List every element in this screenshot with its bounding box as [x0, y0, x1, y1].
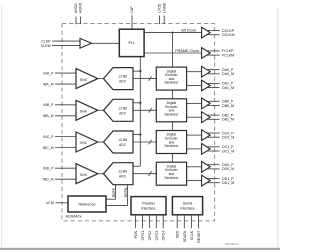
svg-text:REFP: REFP	[112, 187, 116, 197]
svg-text:AVDD: AVDD	[74, 3, 78, 13]
pin CFG4	[162, 215, 164, 228]
LVDS buffer DC1	[202, 144, 211, 155]
wire CLKM	[52, 45, 80, 47]
wire ADCB clock stub	[133, 102, 140, 104]
pin SDATA	[183, 215, 185, 228]
svg-text:DB1_M: DB1_M	[222, 118, 234, 122]
svg-text:CFG2: CFG2	[148, 231, 152, 241]
ADC D	[104, 163, 134, 185]
svg-text:DD1_M: DD1_M	[222, 181, 234, 185]
svg-text:ADS642x: ADS642x	[66, 214, 82, 218]
pins DC0_P DC0_M	[206, 132, 219, 134]
wire INC_P	[55, 136, 76, 138]
svg-text:IND_M: IND_M	[43, 178, 54, 182]
LVDS buffer DC0	[202, 130, 211, 141]
wire SHAC to ADCC	[98, 141, 104, 143]
svg-text:INC_P: INC_P	[43, 135, 54, 139]
svg-text:SHA: SHA	[80, 110, 88, 114]
svg-text:CLKM: CLKM	[41, 44, 51, 48]
pin SEN	[176, 215, 178, 228]
svg-text:Interface: Interface	[141, 206, 155, 210]
wire CAP to PLL	[131, 15, 133, 29]
wire SHAA to ADCA	[98, 78, 104, 80]
svg-text:12-Bit: 12-Bit	[118, 138, 127, 142]
wire SHAD to ADCD	[98, 173, 104, 175]
SHA B	[76, 100, 98, 120]
wire INB_M	[55, 115, 76, 117]
svg-text:IND_P: IND_P	[43, 167, 54, 171]
net REFM	[127, 185, 129, 206]
svg-text:CAP: CAP	[130, 6, 134, 14]
svg-text:Serializer: Serializer	[164, 112, 179, 116]
wire ADC clock vertical	[139, 57, 141, 167]
bus ADCD to encoder	[133, 173, 156, 175]
ADC A	[104, 68, 134, 90]
svg-text:DB0_M: DB0_M	[222, 104, 234, 108]
svg-text:SDATA: SDATA	[183, 230, 187, 242]
pin CFG2	[148, 215, 150, 228]
wire encoderB out0	[187, 102, 202, 104]
bus ADCA to encoder	[133, 78, 156, 80]
chip boundary (dashed)	[62, 24, 215, 221]
svg-text:INB_M: INB_M	[43, 114, 54, 118]
wire encoderD out0	[187, 166, 202, 168]
digital encoder and serializer A	[156, 67, 186, 90]
LVDS buffer FCLK	[202, 48, 211, 59]
svg-text:Reference: Reference	[78, 202, 95, 206]
svg-text:ADC: ADC	[119, 111, 127, 115]
svg-text:DD0_M: DD0_M	[222, 167, 234, 171]
svg-text:SCLK: SCLK	[190, 230, 194, 240]
svg-text:VCM: VCM	[46, 201, 54, 205]
LVDS buffer DA1	[202, 80, 211, 91]
svg-text:ADC: ADC	[119, 80, 127, 84]
svg-text:SHA: SHA	[80, 78, 88, 82]
wire ADCD clock stub	[133, 165, 140, 167]
junction bit clock	[171, 31, 173, 33]
svg-text:RESET: RESET	[197, 230, 201, 243]
junction ADCA clock	[139, 70, 141, 72]
pin CFG3	[155, 215, 157, 228]
page bottom bar	[0, 248, 280, 250]
svg-text:Parallel: Parallel	[142, 202, 154, 206]
page right edge	[277, 8, 278, 248]
pins DA1_P DA1_M	[206, 82, 219, 84]
wire ADCA clock stub	[133, 70, 140, 72]
LVDS buffer DCLK	[202, 27, 211, 38]
bus ADCB to encoder	[133, 109, 156, 111]
pin PDN	[135, 215, 137, 228]
parallel interface block	[131, 197, 166, 215]
bus slash A	[149, 76, 152, 81]
LVDS buffer DD0	[202, 161, 211, 172]
pins DCLKP DCLKM	[206, 30, 219, 32]
svg-text:SHA: SHA	[80, 141, 88, 145]
svg-text:AGND: AGND	[79, 2, 83, 13]
bus slash D	[149, 171, 152, 176]
digital encoder and serializer D	[156, 162, 186, 185]
LVDS buffer DA0	[202, 66, 211, 77]
svg-text:INA_M: INA_M	[43, 82, 54, 86]
wire INA_P	[55, 72, 76, 74]
wire INC_M	[55, 147, 76, 149]
pins DB1_P DB1_M	[206, 114, 219, 116]
wire serializer clock vertical	[172, 33, 174, 68]
svg-text:CLKP: CLKP	[41, 39, 51, 43]
svg-text:Serializer: Serializer	[164, 144, 179, 148]
svg-text:LVDD: LVDD	[158, 3, 162, 13]
svg-text:DA1_M: DA1_M	[222, 86, 234, 90]
svg-text:INA_P: INA_P	[43, 71, 54, 75]
svg-text:Bit Clock: Bit Clock	[181, 28, 196, 32]
svg-text:B0199-04: B0199-04	[225, 242, 238, 246]
svg-text:Interface: Interface	[180, 206, 194, 210]
svg-text:DC1_M: DC1_M	[222, 149, 234, 153]
svg-text:CFG4: CFG4	[162, 231, 166, 241]
svg-text:SHA: SHA	[80, 173, 88, 177]
wire encoderB out1	[187, 116, 202, 118]
svg-text:DA0_M: DA0_M	[222, 72, 234, 76]
svg-text:INC_M: INC_M	[43, 146, 54, 150]
wire IND_M	[55, 178, 76, 180]
svg-text:ADC: ADC	[119, 175, 127, 179]
pins FCLKP FCLKM	[206, 50, 219, 52]
wire encoderD out1	[187, 180, 202, 182]
SHA A	[76, 69, 98, 89]
PLL U1	[119, 29, 144, 56]
wire CLKP	[52, 40, 80, 42]
pin RESET	[198, 215, 200, 228]
svg-text:FCLKM: FCLKM	[222, 53, 234, 57]
clock buffer	[80, 38, 92, 48]
pins DC1_P DC1_M	[206, 146, 219, 148]
serial interface block	[172, 197, 202, 215]
net FRAME Clock	[144, 52, 202, 54]
bus ADCC to encoder	[133, 141, 156, 143]
wire ADCC clock stub	[133, 134, 140, 136]
pins DA0_P DA0_M	[206, 69, 219, 71]
wire clock buffer to PLL	[92, 42, 120, 44]
LVDS buffer DB0	[202, 98, 211, 109]
digital encoder and serializer B	[156, 99, 186, 122]
net REFP	[115, 185, 117, 200]
wire encoderC out1	[187, 148, 202, 150]
svg-text:12-Bit: 12-Bit	[118, 170, 127, 174]
svg-text:CFG3: CFG3	[155, 231, 159, 241]
pins DD0_P DD0_M	[206, 164, 219, 166]
wire encoderA out1	[187, 85, 202, 87]
net Bit Clock	[144, 32, 202, 34]
svg-text:Serializer: Serializer	[164, 176, 179, 180]
pins DD1_P DD1_M	[206, 178, 219, 180]
wire VCM	[56, 202, 69, 204]
bus slash B	[149, 108, 152, 113]
svg-text:CFG1: CFG1	[141, 231, 145, 241]
wire INA_M	[55, 83, 76, 85]
wire encoderA out0	[187, 71, 202, 73]
svg-text:FRAME Clock: FRAME Clock	[175, 49, 199, 53]
ADC C	[104, 131, 134, 153]
digital encoder and serializer C	[156, 131, 186, 154]
svg-text:Serializer: Serializer	[164, 81, 179, 85]
svg-text:REFM: REFM	[124, 187, 128, 197]
reference block	[68, 196, 106, 212]
page left edge	[0, 6, 3, 247]
svg-text:PDN: PDN	[134, 230, 138, 238]
pin CFG1	[142, 215, 144, 228]
LVDS buffer DD1	[202, 175, 211, 186]
wire SHAB to ADCB	[98, 109, 104, 111]
svg-text:DC0_M: DC0_M	[222, 136, 234, 140]
wire encoderC out0	[187, 134, 202, 136]
wire INB_P	[55, 104, 76, 106]
svg-text:SEN: SEN	[176, 230, 180, 238]
svg-text:PLL: PLL	[128, 41, 134, 45]
pin SCLK	[190, 215, 192, 228]
pins DB0_P DB0_M	[206, 100, 219, 102]
SHA C	[76, 132, 98, 152]
svg-text:ADC: ADC	[119, 143, 127, 147]
svg-text:DCLKM: DCLKM	[222, 33, 235, 37]
wire IND_P	[55, 167, 76, 169]
svg-text:INB_P: INB_P	[43, 103, 54, 107]
ADC B	[104, 99, 134, 121]
junction ADCB clock	[139, 102, 141, 104]
svg-text:12-Bit: 12-Bit	[118, 106, 127, 110]
svg-text:Serial: Serial	[183, 202, 193, 206]
junction ADCC clock	[139, 133, 141, 135]
LVDS buffer DB1	[202, 112, 211, 123]
svg-text:LGND: LGND	[162, 2, 166, 12]
svg-text:12-Bit: 12-Bit	[118, 75, 127, 79]
bus slash C	[149, 140, 152, 145]
SHA D	[76, 164, 98, 184]
